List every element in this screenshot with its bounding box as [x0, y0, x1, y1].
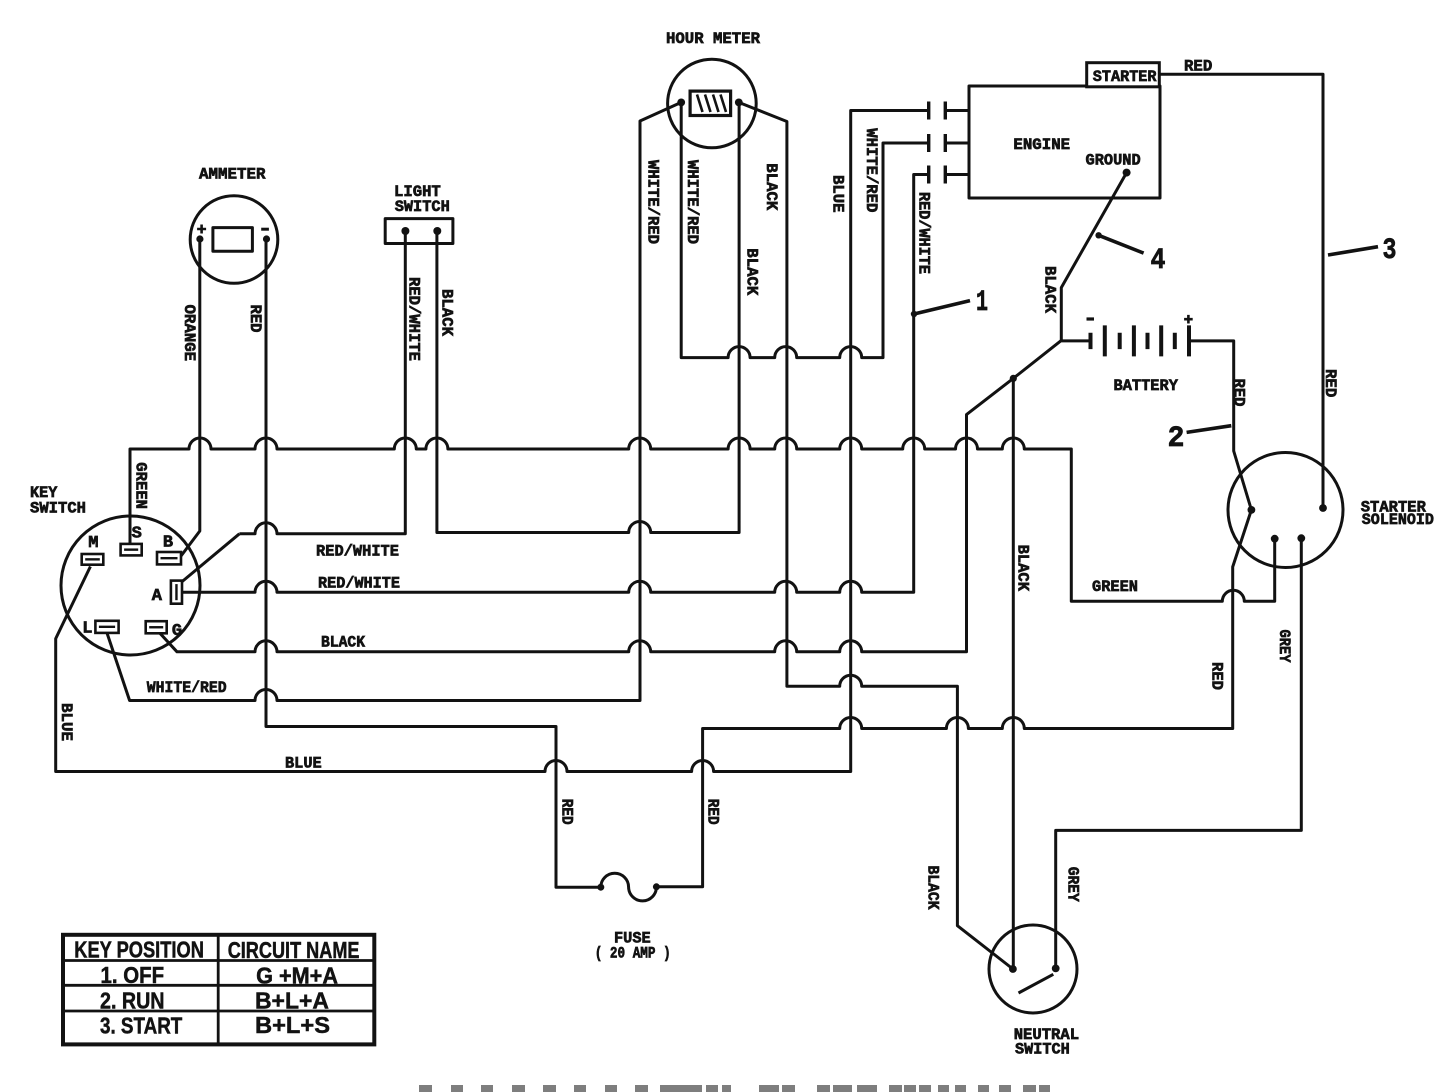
svg-text:RED/WHITE: RED/WHITE [318, 575, 400, 593]
svg-text:M: M [88, 534, 98, 553]
solenoid lower-right terminal dot [1297, 534, 1305, 542]
fuse right terminal dot [653, 883, 660, 890]
ammeter + terminal dot [196, 235, 203, 242]
svg-text:GREY: GREY [1275, 630, 1293, 663]
svg-text:G: G [172, 622, 182, 641]
neutral switch lever [1019, 974, 1054, 993]
wire GREEN: key switch S to bus, down to solenoid small terminal [130, 438, 1275, 601]
leader line 3 [1328, 247, 1378, 255]
svg-text:GROUND: GROUND [1086, 152, 1141, 170]
svg-text:( 20 AMP ): ( 20 AMP ) [595, 945, 671, 963]
svg-text:B+L+A: B+L+A [255, 987, 329, 1013]
wire WHITE/RED: hour meter left terminal to key switch L row [107, 102, 681, 700]
svg-text:WHITE/RED: WHITE/RED [862, 128, 880, 212]
battery + sign [1184, 315, 1193, 324]
ammeter + sign [197, 225, 206, 234]
svg-text:BLACK: BLACK [321, 634, 365, 652]
key switch terminal A [171, 581, 182, 604]
svg-text:BATTERY: BATTERY [1114, 377, 1179, 395]
svg-text:RED: RED [1208, 662, 1226, 690]
svg-text:S: S [132, 525, 142, 544]
wire RED: starter output to solenoid right terminal [1159, 74, 1323, 508]
svg-text:ORANGE: ORANGE [180, 305, 198, 362]
leader line 4 [1099, 235, 1144, 253]
svg-text:RED: RED [558, 799, 576, 825]
svg-text:RED/WHITE: RED/WHITE [915, 192, 933, 274]
svg-text:AMMETER: AMMETER [199, 166, 266, 184]
svg-text:B+L+S: B+L+S [255, 1012, 330, 1038]
wire BLACK: junction dot down to neutral switch left terminal [1012, 378, 1015, 969]
wire GREY: solenoid to neutral switch right terminal [1056, 538, 1302, 968]
solenoid left terminal dot [1248, 506, 1256, 514]
hour meter M2 circle [668, 59, 757, 148]
neutral switch right terminal dot [1052, 965, 1060, 973]
wire RED/WHITE: key switch A row to engine connector 3 [182, 175, 927, 593]
svg-text:2: 2 [1168, 422, 1185, 456]
key position table [63, 935, 374, 1045]
svg-text:WHITE/RED: WHITE/RED [644, 160, 662, 244]
svg-text:ENGINE: ENGINE [1013, 136, 1070, 154]
leader line 2 [1187, 426, 1232, 433]
key switch terminal S [121, 544, 142, 556]
key switch terminal G [146, 621, 167, 633]
fuse left terminal dot [597, 884, 604, 891]
svg-text:KEY POSITION: KEY POSITION [74, 937, 204, 963]
svg-text:GREEN: GREEN [1092, 578, 1138, 596]
wire RED/WHITE: key switch A row to light switch [239, 231, 405, 534]
battery B1 plates [1091, 325, 1190, 356]
svg-text:BLUE: BLUE [285, 755, 322, 773]
svg-text:A: A [152, 587, 163, 606]
leader line 1 [914, 301, 970, 314]
svg-text:WHITE/RED: WHITE/RED [683, 160, 701, 244]
svg-text:RED/WHITE: RED/WHITE [405, 277, 423, 361]
wire BLACK: light switch to hour meter right terminal [437, 102, 739, 532]
light switch right terminal dot [433, 227, 441, 235]
svg-text:1. OFF: 1. OFF [101, 962, 165, 988]
ammeter face rectangle [213, 228, 253, 252]
svg-text:RED: RED [246, 305, 264, 333]
wire RED: battery positive to solenoid, down to fuse right lead [656, 341, 1251, 887]
svg-text:BLUE: BLUE [829, 175, 847, 213]
fuse element S-curve [601, 873, 657, 901]
solenoid lower-left terminal dot [1271, 535, 1279, 543]
svg-text:BLACK: BLACK [743, 248, 761, 295]
svg-text:SOLENOID: SOLENOID [1362, 511, 1434, 529]
neutral switch left terminal dot [1009, 965, 1017, 973]
svg-text:BLACK: BLACK [438, 289, 456, 336]
engine connector pin bars [929, 102, 946, 184]
key switch terminal B [157, 552, 181, 564]
svg-text:SWITCH: SWITCH [1015, 1041, 1070, 1059]
svg-text:WHITE/RED: WHITE/RED [147, 679, 227, 697]
key switch terminal L [95, 621, 118, 633]
light switch left terminal dot [401, 227, 409, 235]
neutral switch circle [989, 925, 1077, 1013]
starter box [1087, 63, 1160, 87]
svg-text:GREY: GREY [1064, 867, 1082, 902]
svg-text:RED: RED [1230, 379, 1248, 407]
hour meter element hatch lines [697, 95, 726, 113]
wire engine GROUND to battery negative [1061, 173, 1126, 341]
hour meter element box [690, 91, 731, 115]
ammeter M1 circle [190, 196, 278, 284]
engine connector right stubs [947, 111, 969, 175]
svg-text:STARTER: STARTER [1093, 68, 1157, 86]
engine box [969, 86, 1160, 198]
svg-text:3. START: 3. START [100, 1013, 182, 1039]
bottom cut-off heading text tops [419, 1085, 1050, 1092]
svg-text:RED: RED [704, 799, 722, 825]
svg-text:BLACK: BLACK [762, 163, 780, 210]
hour meter right terminal dot [735, 99, 743, 107]
leader 1 dot [911, 311, 917, 317]
svg-text:B: B [163, 534, 173, 553]
svg-text:RED: RED [1184, 58, 1212, 76]
wire BLUE: key switch M down, bottom row, up to engine connector 1 [56, 111, 928, 772]
wire battery negative lead from junction dot [1013, 341, 1090, 379]
svg-text:BLACK: BLACK [1041, 266, 1059, 313]
starter solenoid circle [1228, 453, 1343, 568]
wire ORANGE: ammeter + down to key switch B [181, 239, 200, 556]
svg-text:SWITCH: SWITCH [395, 198, 450, 216]
svg-text:G +M+A: G +M+A [256, 963, 338, 989]
svg-text:HOUR METER: HOUR METER [666, 30, 760, 48]
key switch S2 circle [61, 516, 200, 655]
ammeter - terminal dot [263, 235, 270, 242]
leader 4 dot [1095, 232, 1101, 238]
wire WHITE/RED: hour meter left terminal down and over to engine connector 2 [681, 102, 927, 357]
key switch terminal M [82, 554, 104, 565]
battery negative junction dot [1010, 375, 1017, 382]
svg-text:3: 3 [1383, 234, 1397, 268]
wire diagonal key switch A to RED/WHITE row corner [181, 534, 239, 583]
svg-text:1: 1 [976, 286, 988, 320]
svg-text:L: L [82, 620, 92, 639]
svg-text:BLUE: BLUE [57, 703, 75, 741]
engine ground dot [1123, 169, 1131, 177]
wire RED: ammeter - down, left fuse lead [266, 239, 601, 887]
ammeter - sign [261, 228, 269, 231]
hour meter left terminal dot [677, 99, 685, 107]
svg-text:SWITCH: SWITCH [30, 500, 86, 518]
wire BLACK: key switch G row to battery negative junction [160, 378, 1013, 651]
svg-text:4: 4 [1151, 244, 1166, 278]
svg-text:BLACK: BLACK [924, 866, 942, 910]
solenoid right terminal dot [1319, 504, 1327, 512]
svg-text:CIRCUIT NAME: CIRCUIT NAME [228, 937, 360, 963]
wire BLACK: hour meter right terminal diagonal down to neutral switch [739, 102, 1013, 969]
svg-text:BLACK: BLACK [1014, 545, 1032, 592]
svg-text:RED: RED [1321, 369, 1339, 397]
svg-text:GREEN: GREEN [132, 462, 150, 509]
light switch S1 box [385, 219, 453, 244]
svg-text:2. RUN: 2. RUN [100, 988, 165, 1014]
battery - sign [1087, 317, 1095, 320]
svg-text:RED/WHITE: RED/WHITE [316, 543, 399, 561]
